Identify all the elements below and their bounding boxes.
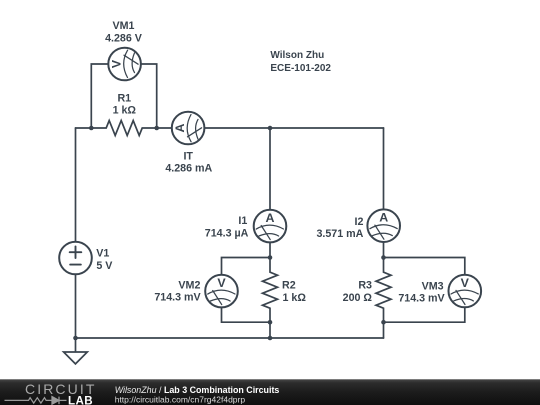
wire IT to right corner, top rail [204, 127, 383, 129]
node junction (270,128) [268, 126, 273, 131]
wire VM2 bottom loop [222, 307, 271, 322]
svg-text:1 kΩ: 1 kΩ [283, 292, 307, 304]
svg-text:V: V [217, 276, 226, 290]
svg-text:I2: I2 [354, 216, 363, 228]
voltage source V1 [59, 242, 92, 275]
wire bottom rail [76, 337, 384, 339]
svg-text:V: V [110, 60, 124, 69]
svg-text:V: V [461, 276, 470, 290]
node junction (384,322) [381, 320, 386, 325]
wire ground stub [75, 338, 77, 352]
svg-text:200 Ω: 200 Ω [343, 292, 373, 304]
svg-text:5 V: 5 V [96, 260, 113, 272]
ammeter I2 [367, 209, 400, 242]
svg-text:V1: V1 [96, 248, 109, 260]
svg-text:ECE-101-202: ECE-101-202 [270, 63, 331, 74]
resistor R1 [91, 121, 156, 136]
svg-text:714.3 mV: 714.3 mV [398, 293, 445, 305]
ammeter I1 [254, 210, 287, 243]
svg-text:A: A [173, 123, 187, 132]
wire VM1 left lead up and across [91, 64, 108, 128]
node junction (270,338) [268, 336, 273, 341]
svg-text:A: A [266, 211, 275, 225]
svg-text:4.286 mA: 4.286 mA [165, 163, 212, 175]
node junction (157,128) [154, 126, 159, 131]
wire right rail corner down to I2 [383, 128, 385, 210]
wire VM1 right lead across and down [141, 64, 157, 128]
svg-text:I1: I1 [238, 215, 247, 227]
wire R1 to IT [157, 127, 172, 129]
node junction (384,257.5) [381, 255, 386, 260]
wire I1 bottom to node [269, 243, 271, 258]
svg-text:R2: R2 [282, 280, 296, 292]
wire V1 bottom to rail [75, 274, 77, 338]
svg-text:LAB: LAB [68, 394, 93, 405]
svg-text:A: A [379, 211, 388, 225]
wire VM2 top loop [222, 258, 271, 276]
voltmeter VM3 [449, 275, 482, 308]
ammeter IT [172, 112, 205, 145]
wire I2 bottom to node [383, 242, 385, 258]
wire VM3 top loop [384, 258, 465, 275]
svg-text:VM3: VM3 [422, 280, 444, 292]
node junction (270,322) [268, 320, 273, 325]
wire node to I1 top [269, 128, 271, 210]
CircuitLab logo resistor-diode squiggle [5, 397, 67, 405]
wire R3 bottom to rail [383, 322, 385, 338]
wire left rail top (75,128)-(91,128) [76, 127, 92, 129]
svg-text:4.286 V: 4.286 V [105, 32, 143, 44]
svg-text:714.3 mV: 714.3 mV [154, 292, 201, 304]
wire left rail vertical (75,128)-(75,242) [75, 128, 77, 242]
svg-text:1 kΩ: 1 kΩ [113, 105, 137, 117]
svg-text:IT: IT [183, 151, 193, 163]
voltmeter VM2 [205, 275, 238, 308]
wire VM3 bottom loop [384, 307, 465, 322]
resistor R3 [376, 258, 391, 323]
resistor R2 [263, 258, 278, 323]
svg-text:714.3 µA: 714.3 µA [205, 227, 249, 239]
svg-text:R1: R1 [117, 92, 131, 104]
ground symbol [64, 352, 88, 364]
svg-text:R3: R3 [358, 280, 372, 292]
node junction (91,128) [89, 126, 94, 131]
svg-text:3.571 mA: 3.571 mA [316, 228, 363, 240]
svg-text:VM2: VM2 [178, 279, 200, 291]
wire R2 bottom to rail [269, 322, 271, 338]
svg-text:Wilson Zhu: Wilson Zhu [270, 50, 324, 61]
node junction (270,257.5) [268, 255, 273, 260]
svg-text:http://circuitlab.com/cn7rg42f: http://circuitlab.com/cn7rg42f4dprp [115, 394, 246, 404]
node junction (75,338) [73, 336, 78, 341]
svg-text:VM1: VM1 [113, 20, 135, 32]
voltmeter VM1 [108, 48, 141, 81]
